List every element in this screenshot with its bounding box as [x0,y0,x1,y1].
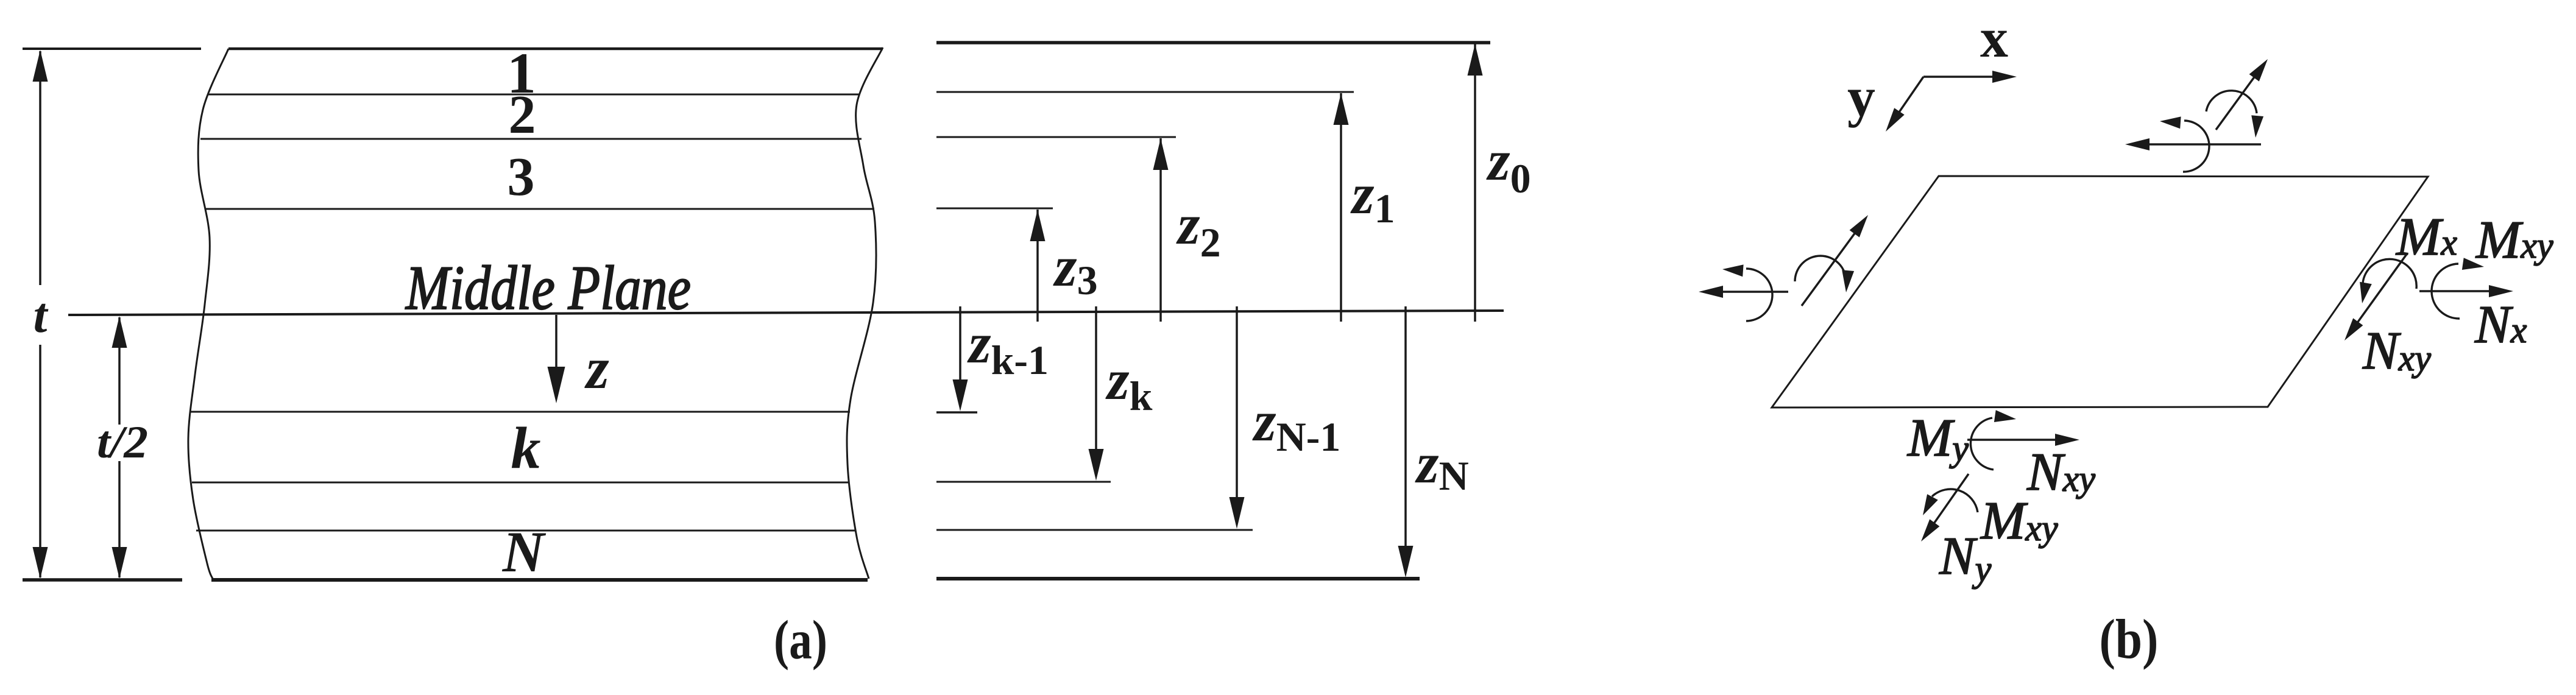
svg-text:N: N [502,520,547,584]
svg-text:(b): (b) [2100,608,2159,670]
svg-text:x: x [1980,7,2008,69]
svg-text:(a): (a) [774,609,827,671]
svg-text:z: z [584,336,609,401]
svg-text:t/2: t/2 [97,417,148,468]
svg-text:k: k [511,415,541,481]
svg-text:3: 3 [508,147,535,207]
svg-text:2: 2 [509,85,536,145]
svg-text:Middle Plane: Middle Plane [405,253,691,323]
svg-text:y: y [1847,66,1875,128]
svg-text:t: t [34,288,49,343]
